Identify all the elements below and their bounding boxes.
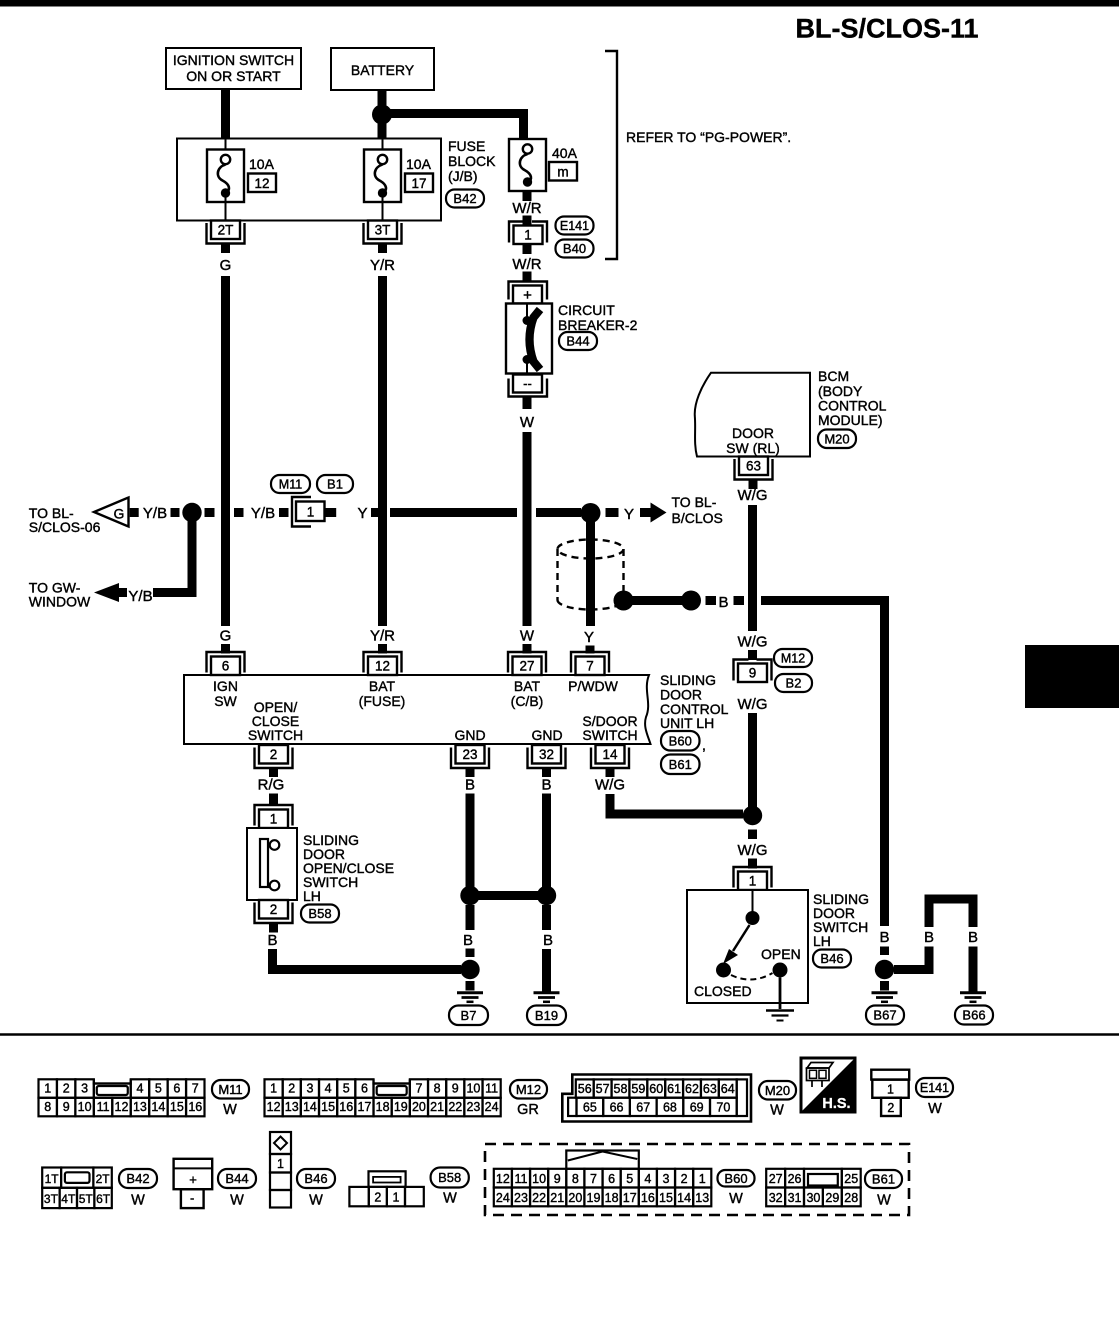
connector 1 open/close switch <box>255 805 293 828</box>
svg-text:14: 14 <box>602 747 618 762</box>
wire Y/R vertical <box>378 276 387 626</box>
svg-text:13: 13 <box>133 1100 147 1114</box>
svg-text:4: 4 <box>325 1082 332 1096</box>
connector 1 sliding door switch <box>734 867 772 890</box>
svg-text:--: -- <box>523 376 532 391</box>
oval B42 index <box>119 1169 157 1209</box>
svg-text:Y: Y <box>624 506 634 523</box>
svg-text:B66: B66 <box>962 1008 985 1023</box>
black side tab <box>1025 645 1119 708</box>
svg-text:B: B <box>968 929 978 946</box>
connector index B60 <box>494 1151 712 1207</box>
svg-text:3T: 3T <box>375 223 391 238</box>
oval B60 index <box>718 1170 755 1207</box>
wire label W/G below BCM <box>738 487 768 504</box>
wire R/G to switch <box>269 794 278 806</box>
svg-text:H.S.: H.S. <box>822 1096 850 1112</box>
svg-text:15: 15 <box>659 1191 673 1205</box>
svg-text:Y/B: Y/B <box>251 505 275 522</box>
svg-text:67: 67 <box>636 1101 650 1115</box>
oval B66 <box>955 1006 993 1025</box>
svg-text:G: G <box>114 506 125 522</box>
wire label Y/R (bottom) <box>370 628 395 645</box>
svg-text:M12: M12 <box>781 652 805 666</box>
oval M12 index <box>510 1080 547 1118</box>
fuse 40A m <box>509 139 578 191</box>
svg-text:SWITCH: SWITCH <box>248 727 303 743</box>
svg-text:24: 24 <box>496 1191 510 1205</box>
wire label B loop left <box>924 929 934 946</box>
ground B67 <box>872 993 898 1002</box>
svg-text:R/G: R/G <box>258 777 285 794</box>
svg-text:14: 14 <box>151 1100 165 1114</box>
svg-text:B42: B42 <box>126 1171 149 1186</box>
svg-text:59: 59 <box>631 1082 645 1096</box>
sliding door control unit box <box>184 675 651 744</box>
sliding door switch labels B46 <box>813 891 869 968</box>
svg-text:1: 1 <box>392 1191 399 1205</box>
wire connector to circuit breaker <box>523 244 532 254</box>
oval B44 index <box>218 1169 256 1209</box>
battery box <box>331 48 434 90</box>
svg-text:12: 12 <box>267 1100 281 1114</box>
connector 23 <box>451 745 489 777</box>
svg-text:66: 66 <box>610 1101 624 1115</box>
svg-text:CIRCUIT: CIRCUIT <box>558 302 615 318</box>
svg-text:B: B <box>718 594 728 611</box>
connector index B44 <box>174 1159 213 1208</box>
svg-text:21: 21 <box>430 1100 444 1114</box>
svg-text:7: 7 <box>415 1082 422 1096</box>
svg-text:4T: 4T <box>61 1192 76 1206</box>
svg-text:1: 1 <box>270 1082 277 1096</box>
svg-text:M11: M11 <box>279 478 302 492</box>
wire label R/G <box>258 777 285 794</box>
svg-text:BAT: BAT <box>514 678 541 694</box>
svg-text:2: 2 <box>681 1172 688 1186</box>
svg-text:1: 1 <box>270 812 278 827</box>
svg-text:B2: B2 <box>786 676 802 691</box>
connector 32 <box>528 745 566 777</box>
svg-text:m: m <box>557 165 568 180</box>
svg-text:16: 16 <box>188 1100 202 1114</box>
svg-text:18: 18 <box>376 1100 390 1114</box>
svg-text:B42: B42 <box>453 191 476 206</box>
connector index B42 <box>42 1168 112 1209</box>
wire label W/G below 9 <box>738 696 768 713</box>
connector index B61 <box>766 1169 861 1207</box>
junction node B7 <box>460 960 479 979</box>
svg-text:CLOSED: CLOSED <box>694 983 752 999</box>
svg-text:Y: Y <box>357 505 367 522</box>
dashed group box B60/B61 <box>485 1144 909 1215</box>
inline connector 1 M11/B1 <box>292 497 336 527</box>
svg-text:(C/B): (C/B) <box>511 693 544 709</box>
oval B40 <box>556 240 594 258</box>
connector 7 <box>571 652 609 675</box>
svg-text:11: 11 <box>485 1082 498 1096</box>
svg-text:28: 28 <box>844 1191 858 1205</box>
svg-text:(FUSE): (FUSE) <box>359 693 406 709</box>
svg-text:B: B <box>541 777 551 794</box>
svg-text:22: 22 <box>448 1100 462 1114</box>
svg-text:16: 16 <box>641 1191 655 1205</box>
connector index B46 <box>270 1132 291 1208</box>
svg-text:65: 65 <box>583 1101 597 1115</box>
svg-text:W: W <box>770 1103 784 1119</box>
svg-text:B61: B61 <box>669 757 692 772</box>
fuse block (J/B) outline <box>177 139 441 221</box>
wire Y vertical <box>586 520 595 626</box>
svg-text:W/G: W/G <box>738 634 768 651</box>
shield cylinder (dashed) <box>558 540 624 610</box>
svg-text:GND: GND <box>454 727 485 743</box>
svg-text:W/G: W/G <box>738 487 768 504</box>
svg-text:1: 1 <box>699 1172 706 1186</box>
svg-text:22: 22 <box>532 1191 546 1205</box>
svg-text:6: 6 <box>608 1172 615 1186</box>
junction node Y splice <box>581 503 601 523</box>
svg-text:BL-S/CLOS-11: BL-S/CLOS-11 <box>795 14 978 44</box>
wire label W/R 2 <box>512 256 541 273</box>
svg-text:BCM: BCM <box>818 368 849 384</box>
wire label Y <box>357 505 367 522</box>
svg-text:27: 27 <box>769 1172 783 1186</box>
wire below right splice <box>542 905 551 930</box>
connector 3T <box>364 221 402 254</box>
svg-text:5T: 5T <box>79 1192 94 1206</box>
svg-text:11: 11 <box>97 1100 110 1114</box>
svg-text:REFER TO “PG-POWER”.: REFER TO “PG-POWER”. <box>626 129 791 145</box>
svg-text:2: 2 <box>887 1101 894 1115</box>
wire label W/G above switch <box>738 842 768 859</box>
junction node gnd link right <box>537 886 556 905</box>
svg-text:9: 9 <box>452 1082 459 1096</box>
ignition switch box <box>166 48 301 89</box>
svg-text:B60: B60 <box>724 1171 747 1186</box>
svg-text:58: 58 <box>614 1082 628 1096</box>
svg-text:B: B <box>879 929 889 946</box>
wire battery splice to 40A fuse <box>382 114 524 140</box>
svg-text:13: 13 <box>285 1100 299 1114</box>
svg-text:W: W <box>729 1191 743 1207</box>
svg-text:32: 32 <box>769 1191 783 1205</box>
wire ignition switch to fuse block <box>221 89 230 139</box>
svg-text:TO BL-: TO BL- <box>672 494 717 510</box>
circuit breaker-2 B44 <box>506 282 552 410</box>
wire label W/G above 9 <box>738 634 768 651</box>
oval B2 <box>775 674 812 692</box>
svg-text:B46: B46 <box>820 951 843 966</box>
junction node B67 <box>875 960 894 979</box>
svg-text:B: B <box>924 929 934 946</box>
svg-text:57: 57 <box>596 1082 610 1096</box>
svg-text:6: 6 <box>222 659 230 674</box>
svg-text:5: 5 <box>343 1082 350 1096</box>
svg-text:17: 17 <box>623 1191 637 1205</box>
svg-text:7: 7 <box>192 1082 199 1096</box>
connector 9 M12/B2 <box>734 660 772 683</box>
connector 2 <box>255 745 293 777</box>
svg-text:12: 12 <box>254 176 269 191</box>
wire W vertical <box>523 432 532 626</box>
svg-text:-: - <box>190 1191 194 1206</box>
svg-text:3T: 3T <box>44 1192 59 1206</box>
svg-text:11: 11 <box>514 1172 527 1186</box>
svg-text:W/G: W/G <box>595 777 625 794</box>
wire to ground B19 <box>542 949 551 992</box>
connector 2 open/close switch <box>255 900 293 933</box>
svg-text:B: B <box>267 932 277 949</box>
svg-text:60: 60 <box>649 1082 663 1096</box>
svg-text:GR: GR <box>517 1102 539 1118</box>
bus dash <box>734 596 745 605</box>
bus dash <box>748 830 757 840</box>
wire label G (top) <box>220 257 232 274</box>
svg-text:UNIT LH: UNIT LH <box>660 715 714 731</box>
page title BL-S/CLOS-11 <box>795 14 978 44</box>
bus dash <box>606 508 619 517</box>
svg-text:2: 2 <box>270 902 278 917</box>
svg-text:P/WDW: P/WDW <box>568 678 619 694</box>
wire switch to ground splice <box>273 949 462 970</box>
svg-text:M20: M20 <box>824 431 849 446</box>
connector index M12 <box>265 1079 501 1116</box>
svg-text:2: 2 <box>374 1191 381 1205</box>
svg-text:3: 3 <box>306 1082 313 1096</box>
svg-text:20: 20 <box>568 1191 582 1205</box>
svg-text:69: 69 <box>690 1101 704 1115</box>
wire 14 to W/G splice <box>610 794 743 814</box>
svg-text:26: 26 <box>788 1172 802 1186</box>
wire B from 23 <box>466 794 475 891</box>
svg-text:W/G: W/G <box>738 696 768 713</box>
svg-text:7: 7 <box>590 1172 597 1186</box>
wire label B 32 <box>541 777 551 794</box>
svg-text:6: 6 <box>173 1082 180 1096</box>
oval B46 index <box>297 1169 335 1209</box>
svg-text:21: 21 <box>550 1191 564 1205</box>
svg-text:20: 20 <box>412 1100 426 1114</box>
svg-text:W: W <box>877 1193 891 1209</box>
ground inside switch <box>766 1011 794 1021</box>
wire label Y/B lower <box>128 588 152 605</box>
svg-text:OPEN: OPEN <box>761 946 801 962</box>
svg-text:B58: B58 <box>438 1170 461 1185</box>
junction node B splice <box>681 591 701 611</box>
svg-text:63: 63 <box>746 459 761 474</box>
bus dash <box>234 508 244 517</box>
wire label G (bottom) <box>220 628 232 645</box>
svg-text:B: B <box>465 777 475 794</box>
svg-text:9: 9 <box>63 1100 70 1114</box>
svg-text:9: 9 <box>554 1172 561 1186</box>
svg-text:1: 1 <box>277 1157 284 1171</box>
svg-text:19: 19 <box>587 1191 601 1205</box>
svg-text:1: 1 <box>887 1083 894 1097</box>
oval E141 index <box>916 1078 953 1117</box>
svg-text:3: 3 <box>663 1172 670 1186</box>
svg-text:W: W <box>520 414 535 431</box>
wire battery to fuse block <box>378 90 387 139</box>
svg-text:1: 1 <box>307 505 315 520</box>
wire loop right to ground <box>969 947 978 992</box>
svg-text:B44: B44 <box>566 334 589 349</box>
oval B61 index <box>865 1170 902 1209</box>
svg-text:2: 2 <box>63 1082 70 1096</box>
bracket refer to PG-POWER <box>605 51 791 259</box>
connector 27 <box>508 652 546 675</box>
svg-text:40A: 40A <box>552 145 578 161</box>
svg-text:B: B <box>543 932 553 949</box>
wire label B right <box>543 932 553 949</box>
svg-text:LH: LH <box>303 888 321 904</box>
svg-text:B: B <box>463 932 473 949</box>
svg-text:6: 6 <box>361 1082 368 1096</box>
svg-text:S/CLOS-06: S/CLOS-06 <box>29 519 101 535</box>
svg-text:Y: Y <box>584 629 594 646</box>
svg-text:DOOR: DOOR <box>732 425 774 441</box>
wire gnd link <box>470 891 547 900</box>
junction node gnd link left <box>460 886 479 905</box>
svg-text:W/R: W/R <box>512 256 541 273</box>
separator line <box>0 1033 1119 1036</box>
wire B bus to right <box>761 601 885 927</box>
svg-text:10A: 10A <box>249 156 275 172</box>
svg-text:61: 61 <box>667 1082 681 1096</box>
svg-text:64: 64 <box>721 1082 735 1096</box>
wire label Y/B left <box>143 505 167 522</box>
arrow to GW-WINDOW <box>29 580 127 610</box>
svg-text:W/G: W/G <box>738 842 768 859</box>
bus dash <box>171 508 180 517</box>
bus dash <box>706 596 717 605</box>
svg-text:SW: SW <box>214 693 237 709</box>
junction node Y/B splice <box>182 503 201 522</box>
svg-text:70: 70 <box>716 1101 730 1115</box>
connector 63 <box>735 457 773 490</box>
svg-text:Y/B: Y/B <box>143 505 167 522</box>
svg-text:10A: 10A <box>406 156 432 172</box>
svg-text:16: 16 <box>339 1100 353 1114</box>
svg-text:2: 2 <box>270 747 278 762</box>
svg-text:SWITCH: SWITCH <box>582 727 637 743</box>
wire label B switch <box>267 932 277 949</box>
fuse block label B42 <box>446 138 496 208</box>
svg-text:14: 14 <box>677 1191 691 1205</box>
svg-text:Y/B: Y/B <box>128 588 152 605</box>
svg-text:W: W <box>230 1193 244 1209</box>
BCM side labels M20 <box>818 368 887 448</box>
connector index E141 <box>871 1070 909 1116</box>
connector 12 <box>364 652 402 675</box>
oval M11 <box>271 475 310 493</box>
junction node shield drain <box>614 591 634 611</box>
svg-text:4: 4 <box>136 1082 143 1096</box>
svg-text:BREAKER-2: BREAKER-2 <box>558 317 638 333</box>
wire label B left <box>463 932 473 949</box>
svg-text:W: W <box>520 628 535 645</box>
oval B1 <box>317 475 353 493</box>
svg-text:2T: 2T <box>96 1172 111 1186</box>
svg-text:MODULE): MODULE) <box>818 412 883 428</box>
arrow to BL-S/CLOS-06 <box>29 498 139 536</box>
svg-text:B60: B60 <box>669 733 692 748</box>
svg-text:+: + <box>523 287 532 304</box>
svg-text:8: 8 <box>434 1082 441 1096</box>
svg-text:W: W <box>928 1101 942 1117</box>
svg-text:B1: B1 <box>327 477 343 492</box>
svg-text:68: 68 <box>663 1101 677 1115</box>
svg-text:W/R: W/R <box>512 200 541 217</box>
svg-text:B58: B58 <box>308 906 331 921</box>
svg-text:17: 17 <box>411 176 426 191</box>
wire loop left to splice <box>894 947 929 970</box>
wire W/G to splice <box>748 713 757 812</box>
H.S. emblem <box>801 1058 855 1112</box>
wire label B bus <box>718 594 728 611</box>
wire label B loop right <box>968 929 978 946</box>
wire label Y right <box>624 506 634 523</box>
svg-text:G: G <box>220 628 232 645</box>
oval M12 <box>774 649 812 667</box>
svg-text:B7: B7 <box>461 1008 477 1023</box>
svg-text:10: 10 <box>78 1100 92 1114</box>
oval M11 index <box>212 1080 249 1118</box>
svg-text:9: 9 <box>749 666 757 681</box>
svg-text:12: 12 <box>496 1172 510 1186</box>
svg-text:W: W <box>131 1193 145 1209</box>
svg-text:5: 5 <box>155 1082 162 1096</box>
svg-text:56: 56 <box>578 1082 592 1096</box>
svg-text:B40: B40 <box>563 241 586 256</box>
svg-text:W: W <box>443 1191 457 1207</box>
wire B from 32 <box>542 794 551 891</box>
oval E141 <box>556 217 594 235</box>
svg-text:SW (RL): SW (RL) <box>726 440 780 456</box>
ground B66 <box>960 993 986 1002</box>
svg-text:15: 15 <box>170 1100 184 1114</box>
svg-text:12: 12 <box>115 1100 129 1114</box>
connector 1 E141/B40 <box>509 222 547 245</box>
svg-text:B61: B61 <box>872 1172 895 1187</box>
control unit labels B60 B61 <box>660 672 729 774</box>
svg-text:23: 23 <box>462 747 477 762</box>
svg-text:ON OR START: ON OR START <box>186 68 281 84</box>
connector index M20 <box>562 1075 751 1122</box>
svg-text:2: 2 <box>288 1082 295 1096</box>
svg-text:(J/B): (J/B) <box>448 168 478 184</box>
wire label W (bottom) <box>520 628 535 645</box>
svg-text:13: 13 <box>695 1191 709 1205</box>
svg-text:G: G <box>220 257 232 274</box>
junction node W/G splice <box>743 806 762 825</box>
svg-text:15: 15 <box>321 1100 335 1114</box>
svg-text:W: W <box>223 1102 237 1118</box>
wire label Y/B <box>251 505 275 522</box>
connector index B58 <box>349 1171 423 1206</box>
svg-text:8: 8 <box>44 1100 51 1114</box>
wire below left splice <box>466 905 475 930</box>
junction node battery splice <box>372 105 392 125</box>
oval B58 index <box>431 1168 469 1207</box>
ground B19 <box>534 993 560 1002</box>
sliding door switch box <box>687 890 808 1009</box>
svg-text:B67: B67 <box>873 1008 896 1023</box>
svg-text:2T: 2T <box>218 223 234 238</box>
connector 2T <box>207 221 245 254</box>
bus wire long segment <box>390 508 517 517</box>
